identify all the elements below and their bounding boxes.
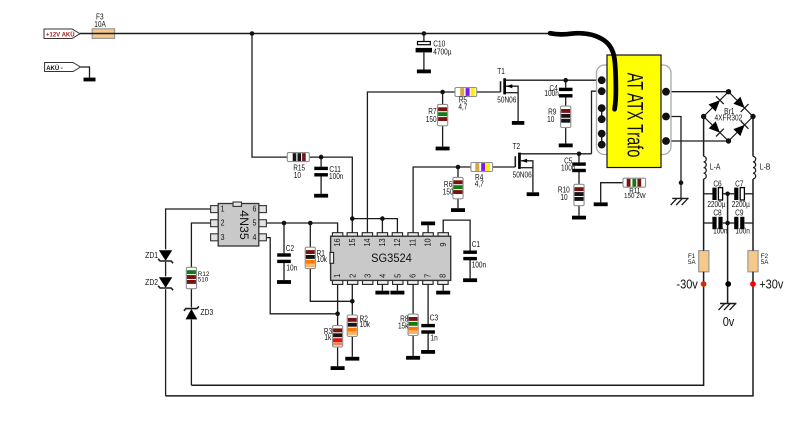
ground below R7 xyxy=(436,147,450,151)
svg-text:4: 4 xyxy=(378,273,388,278)
ground at SG3524 pin4 xyxy=(375,291,389,295)
svg-text:13: 13 xyxy=(378,238,388,247)
resistor R8 15k xyxy=(408,314,418,335)
svg-text:3: 3 xyxy=(363,273,373,278)
wire +12V branch to R15 xyxy=(252,34,287,158)
svg-text:2200µ: 2200µ xyxy=(732,201,750,210)
optocoupler U2 4N35 xyxy=(211,206,219,213)
svg-text:510: 510 xyxy=(198,276,209,283)
ground below R10 xyxy=(572,216,586,220)
transistor T1 50N06 xyxy=(500,81,502,92)
wire T1 drain to trafo pin and C4 node xyxy=(505,79,602,81)
svg-text:10k: 10k xyxy=(317,255,328,264)
wire net pin15-pin13-pin12 (timing) xyxy=(352,219,397,233)
resistor R9 10 xyxy=(561,106,571,127)
ground below C2 xyxy=(277,280,291,284)
svg-text:4700µ: 4700µ xyxy=(433,48,451,57)
bridge rectifier Br1 4XFR302 xyxy=(709,100,720,111)
wire R12/ZD3 branch to 4N35 pin2 xyxy=(190,320,192,386)
svg-text:10: 10 xyxy=(423,238,433,247)
label AKU - xyxy=(45,63,81,72)
svg-text:ZD2: ZD2 xyxy=(145,277,158,287)
svg-text:SG3524: SG3524 xyxy=(371,252,412,266)
wire SG3524 pin14 to R5/R7 junction xyxy=(367,92,455,233)
svg-text:C1: C1 xyxy=(472,240,480,249)
svg-text:+30v: +30v xyxy=(759,277,783,292)
transistor T2 50N06 xyxy=(514,156,516,167)
svg-text:15: 15 xyxy=(347,238,357,247)
svg-text:+12V AKÜ: +12V AKÜ xyxy=(46,29,75,38)
svg-text:50N06: 50N06 xyxy=(497,96,516,105)
svg-text:50N06: 50N06 xyxy=(513,171,532,180)
wire SG3524 pin10 ground stem xyxy=(427,225,429,233)
svg-text:3: 3 xyxy=(221,232,225,242)
wire +30v rail right xyxy=(752,117,754,157)
svg-text:4XFR302: 4XFR302 xyxy=(715,113,743,123)
resistor R4 4,7 xyxy=(471,163,493,172)
capacitor C6 2200u xyxy=(712,188,716,200)
svg-text:10k: 10k xyxy=(360,321,371,330)
svg-text:0v: 0v xyxy=(723,314,735,329)
svg-text:100n: 100n xyxy=(329,173,343,182)
svg-text:150: 150 xyxy=(426,115,437,124)
wire C8 C9 leads xyxy=(704,222,713,224)
thick battery wire to trafo center tap xyxy=(550,33,616,109)
wire SG3524 pin4 pin5 pin8 ground stems xyxy=(381,284,383,290)
svg-text:150 2W: 150 2W xyxy=(624,193,646,201)
wire C10 stems xyxy=(423,34,425,42)
capacitor C8 100n xyxy=(712,217,716,229)
wire T2 drain xyxy=(520,153,592,155)
svg-text:1k: 1k xyxy=(324,334,331,343)
svg-text:L-B: L-B xyxy=(760,162,771,172)
ground below R8 xyxy=(406,356,420,360)
wire R1 leads xyxy=(309,223,311,247)
capacitor C9 100n xyxy=(734,217,738,229)
svg-text:100n: 100n xyxy=(472,261,486,270)
ground at SG3524 pin5 xyxy=(390,291,404,295)
wire C6 C7 leads xyxy=(704,193,713,195)
wire R7 leads xyxy=(442,92,444,104)
resistor R15 10 xyxy=(287,153,309,162)
wire R6 leads xyxy=(457,167,459,177)
wire +12V rail xyxy=(80,33,551,35)
wire T2 source to ground xyxy=(521,161,533,193)
svg-text:1: 1 xyxy=(333,273,343,278)
svg-text:9: 9 xyxy=(438,242,448,247)
wire R11 left lead to ground xyxy=(601,183,623,203)
resistor R5 4,7 xyxy=(455,88,477,97)
node 0v xyxy=(725,281,731,287)
svg-text:2: 2 xyxy=(221,218,225,228)
zener diode ZD3 xyxy=(186,309,198,320)
svg-text:6: 6 xyxy=(408,273,418,278)
svg-text:4N35: 4N35 xyxy=(237,210,251,240)
capacitor C4 100n xyxy=(559,88,573,91)
earth ground 0v xyxy=(720,303,736,305)
ground at T1 source xyxy=(512,121,524,125)
svg-text:16: 16 xyxy=(333,238,343,247)
transformer secondary pins xyxy=(662,88,670,96)
wire SG3524 pin7 to C3 to ground xyxy=(427,284,429,324)
svg-text:5: 5 xyxy=(393,273,403,278)
svg-text:150: 150 xyxy=(443,188,454,197)
node -30v xyxy=(701,281,707,287)
svg-text:5A: 5A xyxy=(688,259,696,266)
capacitor C11 100n xyxy=(314,167,328,170)
capacitor C10 4700u xyxy=(418,42,431,45)
svg-text:C6: C6 xyxy=(713,180,721,189)
svg-text:7: 7 xyxy=(423,273,433,278)
svg-text:5A: 5A xyxy=(761,259,769,266)
zener diode ZD2 xyxy=(159,277,172,288)
resistor R11 150 2W xyxy=(623,178,646,187)
wire -30v rail left xyxy=(703,117,705,157)
svg-text:15k: 15k xyxy=(398,322,409,331)
svg-text:T1: T1 xyxy=(497,67,505,76)
svg-text:4,7: 4,7 xyxy=(475,180,484,189)
resistor R6 150 xyxy=(453,177,463,198)
wire trafo sec top to bridge xyxy=(666,91,729,93)
transformer AT ATX Trafo xyxy=(597,65,672,155)
wire C5 / R10 stems xyxy=(578,154,580,163)
zener diode ZD1 xyxy=(159,250,172,261)
ground below C11 xyxy=(314,194,328,198)
ground below R6 xyxy=(451,208,465,212)
wire R15 to C11 junction to SG3524 pin 15 xyxy=(309,157,352,233)
wire T1 source to ground xyxy=(506,86,518,121)
capacitor C1 100n xyxy=(463,251,477,254)
wire SG3524 pin1 to R3 to ground xyxy=(337,284,339,325)
svg-text:5: 5 xyxy=(253,218,257,228)
svg-text:14: 14 xyxy=(363,238,373,247)
ground at SG3524 pin10 (inverted) xyxy=(421,222,435,226)
label +12V AKU xyxy=(44,29,80,39)
inductor L-A xyxy=(704,156,707,179)
IC U1 SG3524 xyxy=(332,233,342,237)
wire C11 stems xyxy=(320,157,322,167)
capacitor C7 2200u xyxy=(734,188,738,200)
capacitor C5 100n xyxy=(572,162,586,165)
ground at AKU- xyxy=(84,78,96,82)
svg-text:2: 2 xyxy=(348,273,358,278)
wire bridge diamond xyxy=(704,92,753,141)
svg-text:ZD1: ZD1 xyxy=(145,250,158,260)
fuse F2 5A xyxy=(748,251,758,272)
bridge node dots xyxy=(726,89,731,94)
fuse F3 10A xyxy=(92,29,114,39)
wire trafo sec center tap to earth xyxy=(666,117,681,199)
earth ground at trafo center tap / R11 xyxy=(672,197,688,199)
inductor L-B xyxy=(753,156,756,179)
svg-text:4,7: 4,7 xyxy=(458,103,467,112)
resistor R10 10 xyxy=(574,184,584,205)
svg-text:T2: T2 xyxy=(513,142,521,151)
wire SG3524 pin6 to R8 to ground xyxy=(412,284,414,314)
wire ZD1/ZD2 branch to 4N35 pin1 xyxy=(165,289,167,396)
ground at T2 source xyxy=(527,192,540,196)
wire 4N35 pin4 to SG3524 pin1 node xyxy=(266,238,337,314)
svg-text:6: 6 xyxy=(253,204,257,214)
svg-text:10n: 10n xyxy=(286,264,297,273)
ground below R2 xyxy=(345,357,359,361)
svg-text:C3: C3 xyxy=(430,313,439,323)
svg-text:1: 1 xyxy=(221,204,225,214)
svg-text:10: 10 xyxy=(547,116,554,125)
node +30v xyxy=(750,281,756,287)
ground at SG3524 pin8 xyxy=(436,291,450,295)
svg-text:100n: 100n xyxy=(713,227,727,236)
ground at R11 xyxy=(594,202,608,206)
svg-text:8: 8 xyxy=(438,273,448,278)
wire 0v center rail xyxy=(727,194,729,304)
svg-text:C7: C7 xyxy=(735,180,743,189)
ground below C3 xyxy=(421,350,435,354)
wire R5 to T1 gate xyxy=(477,91,501,93)
wire 4N35 pin5 to SG3524 pin16 xyxy=(266,223,337,233)
transformer primary pins xyxy=(601,108,603,119)
svg-text:10: 10 xyxy=(294,171,301,180)
wire SG3524 pin9 to C1 to ground xyxy=(443,220,470,250)
svg-text:100n: 100n xyxy=(544,89,558,98)
svg-text:AKÜ -: AKÜ - xyxy=(46,62,63,71)
resistor R3 1k xyxy=(333,326,343,347)
ground below C10 xyxy=(417,70,431,74)
svg-text:100n: 100n xyxy=(561,164,575,173)
svg-text:-30v: -30v xyxy=(676,277,697,292)
ground below C1 xyxy=(463,278,477,282)
svg-text:11: 11 xyxy=(408,238,418,246)
svg-text:1n: 1n xyxy=(431,334,438,343)
resistor R7 150 xyxy=(438,104,448,125)
svg-text:10A: 10A xyxy=(94,20,106,29)
wire C2 stems xyxy=(283,223,285,253)
svg-text:100n: 100n xyxy=(735,227,749,236)
svg-text:12: 12 xyxy=(393,238,403,247)
wire SG3524 pin2 to R2 to ground xyxy=(351,284,353,315)
capacitor C2 10n xyxy=(277,253,291,256)
svg-text:ZD3: ZD3 xyxy=(200,307,213,317)
svg-text:4: 4 xyxy=(253,232,258,242)
ground below R3 xyxy=(331,366,345,370)
svg-text:2200µ: 2200µ xyxy=(707,201,725,210)
wire trafo pin2 to T2 drain node xyxy=(592,91,602,154)
capacitor C3 1n xyxy=(421,324,435,327)
svg-text:AT ATX Trafo: AT ATX Trafo xyxy=(623,73,648,158)
resistor R12 510 xyxy=(186,267,196,288)
wire C4 / R9 stems xyxy=(565,80,567,88)
svg-text:L-A: L-A xyxy=(710,162,721,172)
fuse F1 5A xyxy=(699,251,709,272)
svg-text:10: 10 xyxy=(560,193,567,202)
junction dots xyxy=(250,31,255,36)
resistor R2 10k xyxy=(347,315,357,336)
resistor R1 10k xyxy=(305,247,315,268)
svg-text:C2: C2 xyxy=(286,244,294,253)
wire trafo sec bottom to bridge xyxy=(666,140,729,142)
wire SG3524 pin11 to R6/R4 junction and T2 gate xyxy=(413,167,471,233)
svg-text:C9: C9 xyxy=(735,209,743,218)
wire AKU- to ground xyxy=(81,67,90,78)
ground below R9 xyxy=(559,144,573,148)
svg-text:C8: C8 xyxy=(713,209,721,218)
